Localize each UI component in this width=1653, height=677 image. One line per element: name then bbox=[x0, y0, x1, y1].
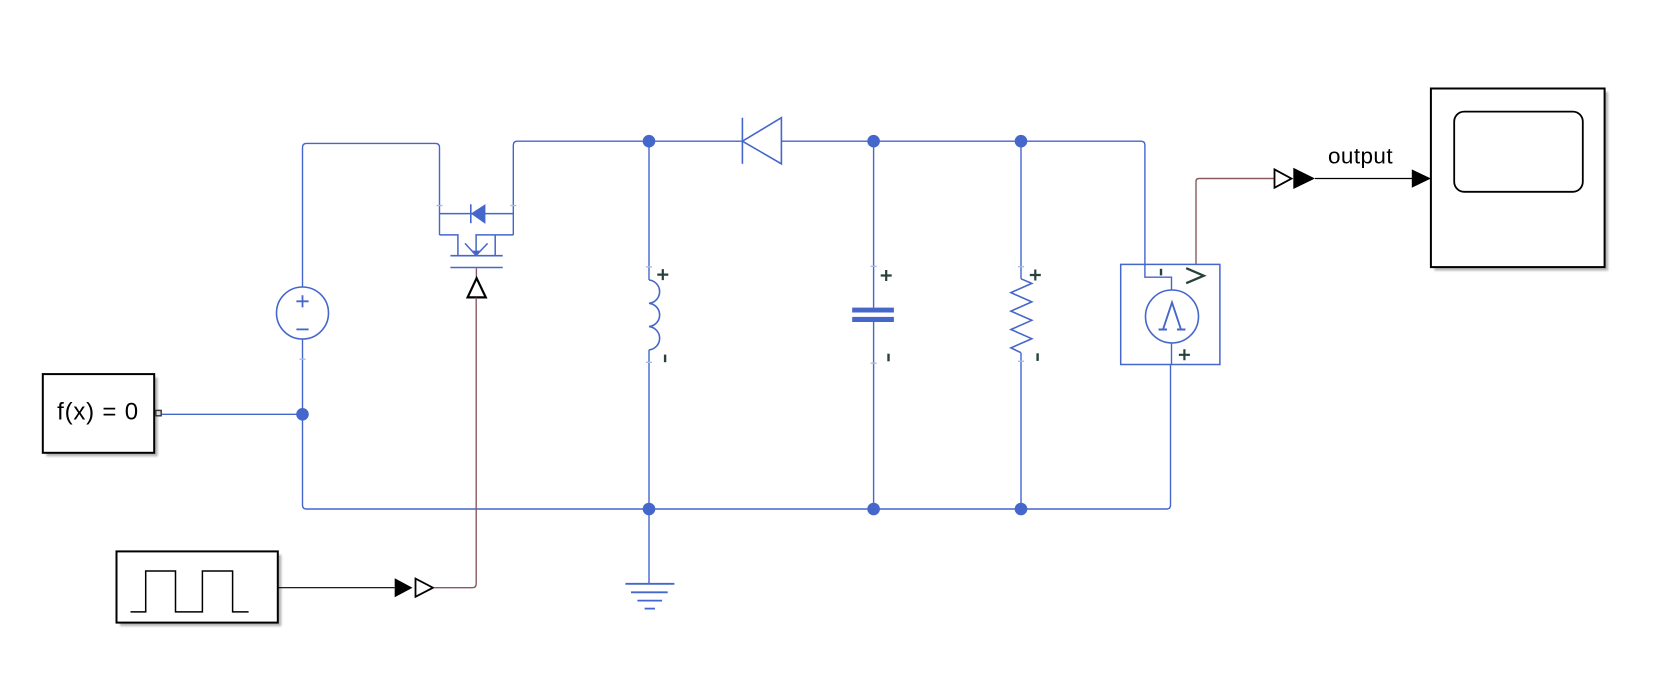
wire: bottom rail bbox=[303, 365, 1171, 510]
node bottom B bbox=[867, 503, 880, 516]
wire: MOSFET right up and top rail to diode bbox=[513, 141, 742, 235]
resistor R1 bottom wire bbox=[1020, 353, 1022, 509]
svg-text:output: output bbox=[1328, 144, 1393, 169]
MOSFET Q1 gate line bbox=[450, 267, 502, 269]
inductor L1 coil bbox=[649, 280, 660, 350]
gate port triangle bbox=[468, 278, 486, 297]
wire: diode to sensor (top rail right) bbox=[781, 141, 1171, 290]
solver block right port square bbox=[156, 410, 161, 415]
sensor plus label bbox=[1179, 349, 1190, 360]
port tick capacitor top bbox=[871, 265, 877, 267]
MOSFET Q1 source arrow bbox=[465, 243, 488, 255]
wire from solver to node bbox=[162, 413, 303, 415]
voltage sensor bottom wire bbox=[1171, 343, 1173, 365]
node left (solver junction) bbox=[296, 408, 309, 421]
wire: source top to MOSFET left (top-left rail) bbox=[303, 143, 440, 287]
voltage sensor block U1 box bbox=[1121, 264, 1220, 364]
converter filled triangle (output) bbox=[1293, 168, 1315, 189]
resistor plus label bbox=[1030, 270, 1041, 281]
converter filled triangle (gate) bbox=[395, 578, 413, 597]
scope input arrow bbox=[1412, 169, 1431, 187]
diode D1 bbox=[742, 118, 781, 164]
port tick resistor bottom bbox=[1018, 360, 1024, 362]
node top B bbox=[867, 135, 880, 148]
capacitor C1 bottom wire bbox=[873, 322, 875, 509]
node top C bbox=[1015, 135, 1028, 148]
sensor minus label bbox=[1160, 269, 1162, 276]
inductor plus label bbox=[657, 269, 668, 280]
gate stub red bbox=[475, 268, 477, 278]
capacitor plus label bbox=[881, 270, 892, 281]
node bottom C bbox=[1015, 503, 1028, 516]
capacitor C1 plates bbox=[852, 308, 894, 313]
converter open triangle (gate) bbox=[416, 579, 434, 597]
voltage sensor lambda bbox=[1159, 303, 1186, 330]
ground symbol bbox=[625, 584, 674, 609]
black wire to scope bbox=[1315, 178, 1412, 180]
resistor minus label bbox=[1036, 353, 1038, 361]
port tick resistor top bbox=[1018, 266, 1024, 268]
solver block f(x)=0 bbox=[43, 374, 158, 456]
MOSFET Q1 body diode triangle bbox=[471, 204, 486, 224]
scope block bbox=[1431, 89, 1608, 271]
svg-text:f(x) = 0: f(x) = 0 bbox=[57, 399, 139, 426]
red wire pulse to gate bbox=[434, 298, 476, 588]
MOSFET Q1 body diode bar bbox=[470, 204, 472, 223]
port tick MOSFET left bbox=[437, 205, 443, 207]
voltage sensor circle bbox=[1146, 290, 1199, 343]
capacitor C1 top wire bbox=[873, 141, 875, 307]
port tick MOSFET right bbox=[510, 205, 516, 207]
red wire sensor to converter bbox=[1196, 179, 1275, 265]
port tick inductor top bbox=[646, 266, 652, 268]
inductor L1 top wire bbox=[648, 141, 650, 280]
capacitor minus label bbox=[887, 354, 889, 362]
voltage source V1 bbox=[277, 287, 329, 339]
black wire from pulse generator bbox=[278, 587, 395, 589]
node top A bbox=[643, 135, 656, 148]
MOSFET Q1 channel line bbox=[450, 255, 502, 257]
resistor R1 top wire bbox=[1020, 141, 1022, 279]
node bottom A bbox=[643, 503, 656, 516]
inductor minus label bbox=[664, 355, 666, 363]
sensor output chevron bbox=[1186, 268, 1204, 283]
resistor R1 zigzag bbox=[1011, 279, 1032, 353]
wire: source bottom to node bbox=[302, 339, 304, 414]
converter open triangle (output) bbox=[1275, 169, 1292, 187]
port tick source bottom bbox=[300, 358, 306, 360]
MOSFET Q1 body diode line bbox=[440, 213, 514, 215]
MOSFET Q1 stair right bbox=[476, 235, 513, 256]
MOSFET Q1 stair left bbox=[440, 235, 458, 256]
port tick capacitor bottom bbox=[871, 362, 877, 364]
inductor L1 bottom wire to ground stem bbox=[648, 350, 650, 584]
pulse generator block bbox=[117, 551, 282, 626]
port tick inductor bottom bbox=[646, 361, 652, 363]
